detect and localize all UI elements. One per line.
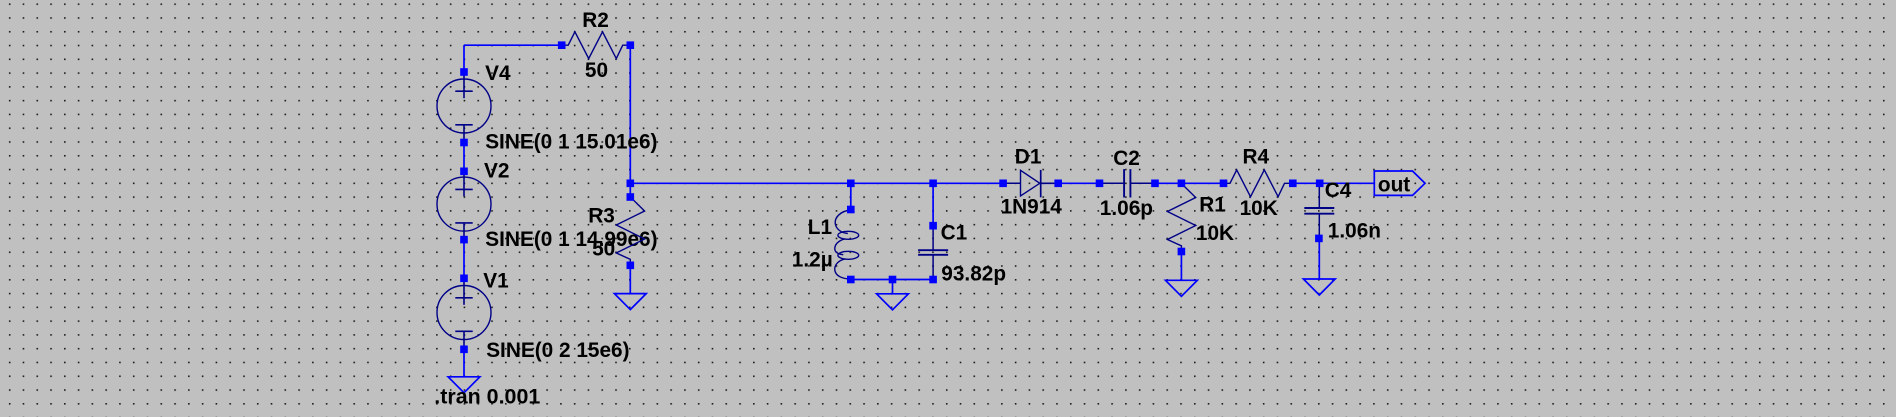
svg-text:10K: 10K <box>1196 222 1234 245</box>
svg-text:C4: C4 <box>1325 179 1352 202</box>
svg-text:SINE(0 1 14.99e6): SINE(0 1 14.99e6) <box>485 228 657 251</box>
wire C4 bottom to ground <box>1318 238 1320 279</box>
svg-text:C1: C1 <box>941 221 968 244</box>
svg-text:R4: R4 <box>1243 146 1270 169</box>
ground below rail <box>877 294 909 310</box>
wire V1 bottom to ground <box>463 349 465 377</box>
wire R4 right to out port <box>1293 182 1375 184</box>
svg-text:.tran 0.001: .tran 0.001 <box>434 386 540 409</box>
resistor R3 <box>616 193 644 269</box>
wire from V4 top to corner <box>463 45 465 72</box>
svg-text:R1: R1 <box>1199 193 1226 216</box>
svg-text:C2: C2 <box>1113 147 1140 170</box>
capacitor C1 <box>918 222 948 283</box>
wire from R2 right pin down to main node <box>629 45 631 183</box>
wire node to C1 top <box>932 183 934 225</box>
voltage source V1 <box>437 275 491 354</box>
wire R3 bottom to ground <box>629 265 631 293</box>
svg-text:1N914: 1N914 <box>1001 195 1063 218</box>
resistor R2 <box>558 32 634 59</box>
svg-text:1.06n: 1.06n <box>1328 220 1381 243</box>
svg-text:out: out <box>1378 173 1410 196</box>
node junction on rail <box>889 276 897 284</box>
svg-text:50: 50 <box>585 59 608 82</box>
wire V2 bottom to V1 top <box>463 240 465 279</box>
wire from corner to R2 left pin <box>464 44 562 46</box>
svg-text:D1: D1 <box>1015 145 1042 168</box>
capacitor C2 <box>1096 169 1159 197</box>
bottom rail wire L1 to C1 <box>851 279 933 281</box>
wire C2 right to R4 left <box>1155 182 1224 184</box>
resistor R4 <box>1220 170 1297 197</box>
resistor R1 <box>1167 180 1195 256</box>
inductor L1 <box>835 206 859 284</box>
voltage source V2 <box>437 168 491 244</box>
svg-text:93.82p: 93.82p <box>941 262 1006 285</box>
svg-text:L1: L1 <box>808 216 832 239</box>
wire node to L1 top <box>850 183 852 209</box>
output port out <box>1374 171 1425 196</box>
node junction at C1 top <box>929 180 937 188</box>
wire V4 bottom to V2 top <box>463 143 465 172</box>
svg-text:1.2µ: 1.2µ <box>792 248 833 271</box>
svg-text:SINE(0 1 15.01e6): SINE(0 1 15.01e6) <box>485 131 657 154</box>
ground below R3 <box>614 294 646 310</box>
svg-text:SINE(0 2 15e6): SINE(0 2 15e6) <box>486 339 629 362</box>
ground below V1 <box>448 377 480 393</box>
svg-text:R2: R2 <box>582 9 609 32</box>
svg-text:R3: R3 <box>588 204 615 227</box>
wire D1 cathode to C2 left <box>1042 182 1100 184</box>
node junction at L1 top <box>847 180 855 188</box>
diode D1 <box>999 170 1062 197</box>
voltage source V4 <box>437 68 491 146</box>
svg-text:50: 50 <box>592 237 615 260</box>
svg-text:V2: V2 <box>484 159 509 182</box>
ground below C4 <box>1303 279 1335 295</box>
svg-text:1.06p: 1.06p <box>1100 197 1153 220</box>
wire R1 bottom to ground <box>1180 252 1182 281</box>
wire node to R3 top <box>629 183 631 197</box>
svg-text:V4: V4 <box>485 62 511 85</box>
ground below R1 <box>1166 280 1198 296</box>
capacitor C4 <box>1304 180 1334 243</box>
main bus wire node to D1 anode <box>630 182 1003 184</box>
svg-text:V1: V1 <box>483 270 508 293</box>
wire rail to ground <box>892 280 894 294</box>
node junction at R3 top <box>627 180 635 188</box>
svg-text:10K: 10K <box>1240 197 1278 220</box>
